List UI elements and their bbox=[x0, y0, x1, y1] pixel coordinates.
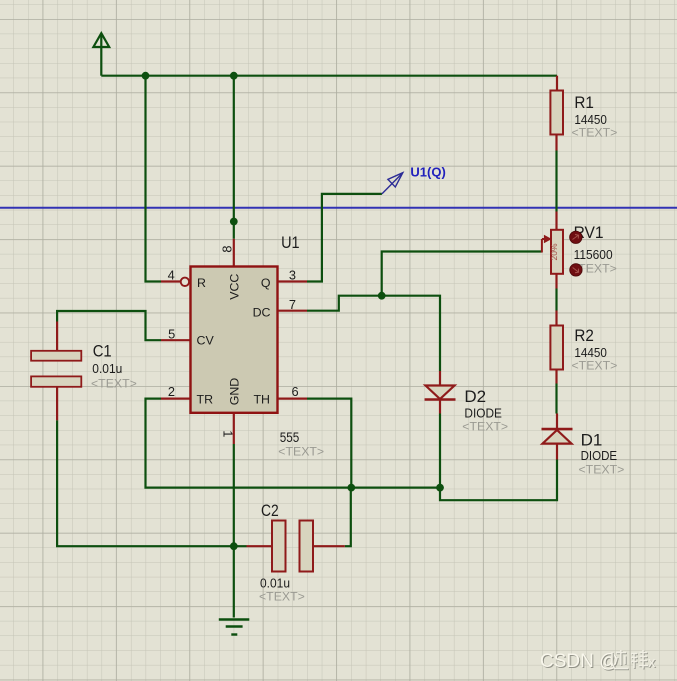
node top rail / pin8 bbox=[230, 72, 238, 80]
svg-text:TR: TR bbox=[197, 392, 214, 406]
svg-text:CV: CV bbox=[197, 334, 215, 348]
node gnd / C2 left bbox=[230, 542, 238, 550]
wire C1 top to CV bbox=[57, 311, 161, 340]
svg-text:<TEXT>: <TEXT> bbox=[579, 462, 625, 476]
svg-text:555: 555 bbox=[280, 429, 300, 445]
svg-text:DC: DC bbox=[253, 306, 271, 320]
diode D2 bbox=[425, 386, 456, 400]
stub RV1 bottom bbox=[555, 274, 557, 289]
label D2 bbox=[462, 387, 508, 434]
svg-text:D1: D1 bbox=[581, 431, 603, 450]
power arrow symbol bbox=[93, 33, 109, 47]
wire D2 bottom bbox=[439, 414, 441, 488]
svg-text:0.01u: 0.01u bbox=[260, 576, 290, 591]
label C1 bbox=[91, 342, 137, 391]
stub pin2 bbox=[161, 398, 191, 400]
blue sheet border line bbox=[0, 207, 677, 209]
svg-text:R: R bbox=[197, 276, 206, 290]
wire Q to probe bbox=[307, 194, 382, 282]
chip pin names bbox=[197, 274, 271, 407]
svg-text:C2: C2 bbox=[261, 501, 279, 520]
stub D2 bottom bbox=[439, 400, 441, 414]
wire vertical to pin4 bbox=[146, 76, 162, 282]
watermark CJK glyphs bbox=[612, 650, 649, 670]
pin4 inversion bubble bbox=[181, 278, 189, 286]
stub pin5 bbox=[161, 339, 191, 341]
svg-text:R2: R2 bbox=[574, 326, 594, 345]
svg-text:0.01u: 0.01u bbox=[92, 361, 122, 376]
chip pin numbers bbox=[168, 245, 299, 437]
resistor R2 bbox=[550, 326, 563, 370]
svg-text:8: 8 bbox=[220, 245, 235, 252]
svg-text:U1(Q): U1(Q) bbox=[410, 165, 445, 180]
stub C1 top bbox=[56, 322, 58, 352]
stub C2 left bbox=[247, 545, 273, 547]
potentiometer RV1 body bbox=[551, 230, 563, 274]
svg-text:2: 2 bbox=[168, 384, 175, 399]
stub pin6 bbox=[278, 398, 308, 400]
watermark CSDN bbox=[540, 651, 619, 673]
svg-text:<TEXT>: <TEXT> bbox=[91, 376, 137, 390]
wire TR down bbox=[146, 399, 441, 488]
wire vertical to pin8 bbox=[233, 76, 235, 239]
svg-text:5: 5 bbox=[168, 327, 175, 342]
svg-text:4: 4 bbox=[168, 268, 175, 283]
svg-text:6: 6 bbox=[292, 384, 299, 399]
555 chip U1 body bbox=[191, 267, 278, 413]
stub D1 top bbox=[556, 414, 558, 429]
stub pin7 bbox=[278, 310, 308, 312]
svg-text:3: 3 bbox=[289, 268, 296, 283]
wire wiper to RV1 bbox=[382, 252, 542, 296]
red pin stubs bbox=[57, 76, 557, 547]
svg-text:C1: C1 bbox=[93, 342, 112, 361]
ground bbox=[219, 620, 250, 635]
wire C1 bottom rail bbox=[57, 420, 246, 546]
label RV1 bbox=[571, 223, 617, 276]
label R2 bbox=[572, 326, 618, 373]
stub D1 bottom bbox=[556, 444, 558, 460]
stub pin4 bbox=[161, 280, 181, 282]
stub R1 bottom bbox=[555, 135, 557, 151]
svg-text:<TEXT>: <TEXT> bbox=[572, 125, 618, 139]
svg-text:20%: 20% bbox=[549, 243, 559, 260]
node D2 / D1 bbox=[436, 484, 444, 492]
stub R2 bottom bbox=[555, 370, 557, 384]
svg-text:TH: TH bbox=[253, 392, 270, 406]
stub pin1 bbox=[233, 413, 235, 444]
stub pin8 bbox=[233, 239, 235, 267]
svg-text:Q: Q bbox=[261, 276, 271, 290]
svg-text:VCC: VCC bbox=[228, 274, 242, 300]
svg-text:U1: U1 bbox=[281, 233, 300, 252]
RV1 adjust knob bottom bbox=[570, 264, 582, 276]
wire C2 right up bbox=[345, 488, 351, 547]
svg-text:7: 7 bbox=[289, 297, 296, 312]
svg-text:1: 1 bbox=[220, 430, 235, 437]
label C2 bbox=[259, 501, 305, 603]
wire bottom right to D1 bbox=[440, 460, 557, 501]
svg-text:<TEXT>: <TEXT> bbox=[259, 590, 305, 604]
node DC / wiper bbox=[378, 292, 386, 300]
wire R2 to D1 bbox=[555, 384, 557, 414]
stub pin3 bbox=[278, 280, 308, 282]
svg-text:<TEXT>: <TEXT> bbox=[462, 420, 508, 434]
svg-text:x: x bbox=[648, 654, 656, 671]
svg-text:GND: GND bbox=[228, 378, 242, 406]
stub C2 right bbox=[313, 545, 345, 547]
label R1 bbox=[572, 93, 618, 140]
svg-text:R1: R1 bbox=[574, 93, 594, 112]
wire DC net bbox=[307, 296, 440, 371]
stub R1 top bbox=[556, 76, 558, 91]
svg-text:CSDN @: CSDN @ bbox=[540, 651, 618, 672]
label D1 bbox=[579, 431, 625, 477]
resistor R1 bbox=[550, 91, 563, 135]
svg-text:DIODE: DIODE bbox=[581, 448, 618, 463]
wire RV1 to R2 bbox=[555, 289, 557, 311]
capacitor C2 bbox=[272, 521, 286, 572]
probe arrow U1(Q) bbox=[382, 173, 403, 194]
wire TH down bbox=[307, 399, 351, 488]
svg-text:<TEXT>: <TEXT> bbox=[278, 444, 324, 458]
node TH / C2 bbox=[347, 484, 355, 492]
node vcc wire dot bbox=[230, 218, 238, 226]
wire pin1 to ground bbox=[233, 444, 235, 618]
svg-text:D2: D2 bbox=[464, 387, 486, 406]
stub D2 top bbox=[439, 371, 441, 385]
stub C1 bottom bbox=[56, 387, 58, 421]
node top rail / pin4 bbox=[142, 72, 150, 80]
svg-text:<TEXT>: <TEXT> bbox=[572, 359, 618, 373]
diode D1 bbox=[542, 429, 573, 444]
svg-text:115600: 115600 bbox=[574, 247, 613, 262]
capacitor C1 bbox=[31, 351, 81, 361]
RV1 adjust knob top bbox=[570, 231, 582, 243]
power symbol stem bbox=[100, 34, 102, 76]
potentiometer RV1 wiper arrow bbox=[542, 235, 551, 252]
wire R1 to RV1 bbox=[555, 151, 557, 212]
stub RV1 top bbox=[555, 212, 557, 231]
wire top rail bbox=[101, 75, 557, 77]
stub R2 top bbox=[555, 311, 557, 326]
svg-text:DIODE: DIODE bbox=[464, 406, 502, 421]
